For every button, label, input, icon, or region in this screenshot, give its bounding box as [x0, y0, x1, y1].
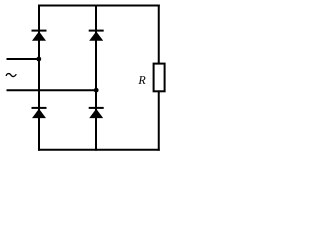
diode D4 bottom-middle: [89, 107, 104, 118]
resistor R value label: [138, 76, 145, 84]
wire middle branch vertical: [95, 5, 97, 151]
wire right branch vertical lower: [158, 92, 160, 151]
node junction top input / left branch: [36, 57, 41, 62]
wire top rail: [38, 5, 160, 7]
diode D2 top-middle: [89, 30, 104, 41]
wire bottom rail: [38, 149, 160, 151]
wire right branch vertical upper: [158, 5, 160, 64]
node junction bottom input / middle branch: [94, 88, 99, 93]
wire left branch vertical: [38, 5, 40, 151]
AC source tilde symbol: [6, 74, 16, 77]
resistor R body: [154, 64, 165, 92]
diode D1 top-left: [32, 30, 47, 41]
wire AC input top: [7, 58, 40, 60]
diode D3 bottom-left: [32, 107, 47, 118]
wire AC input bottom: [7, 89, 97, 91]
